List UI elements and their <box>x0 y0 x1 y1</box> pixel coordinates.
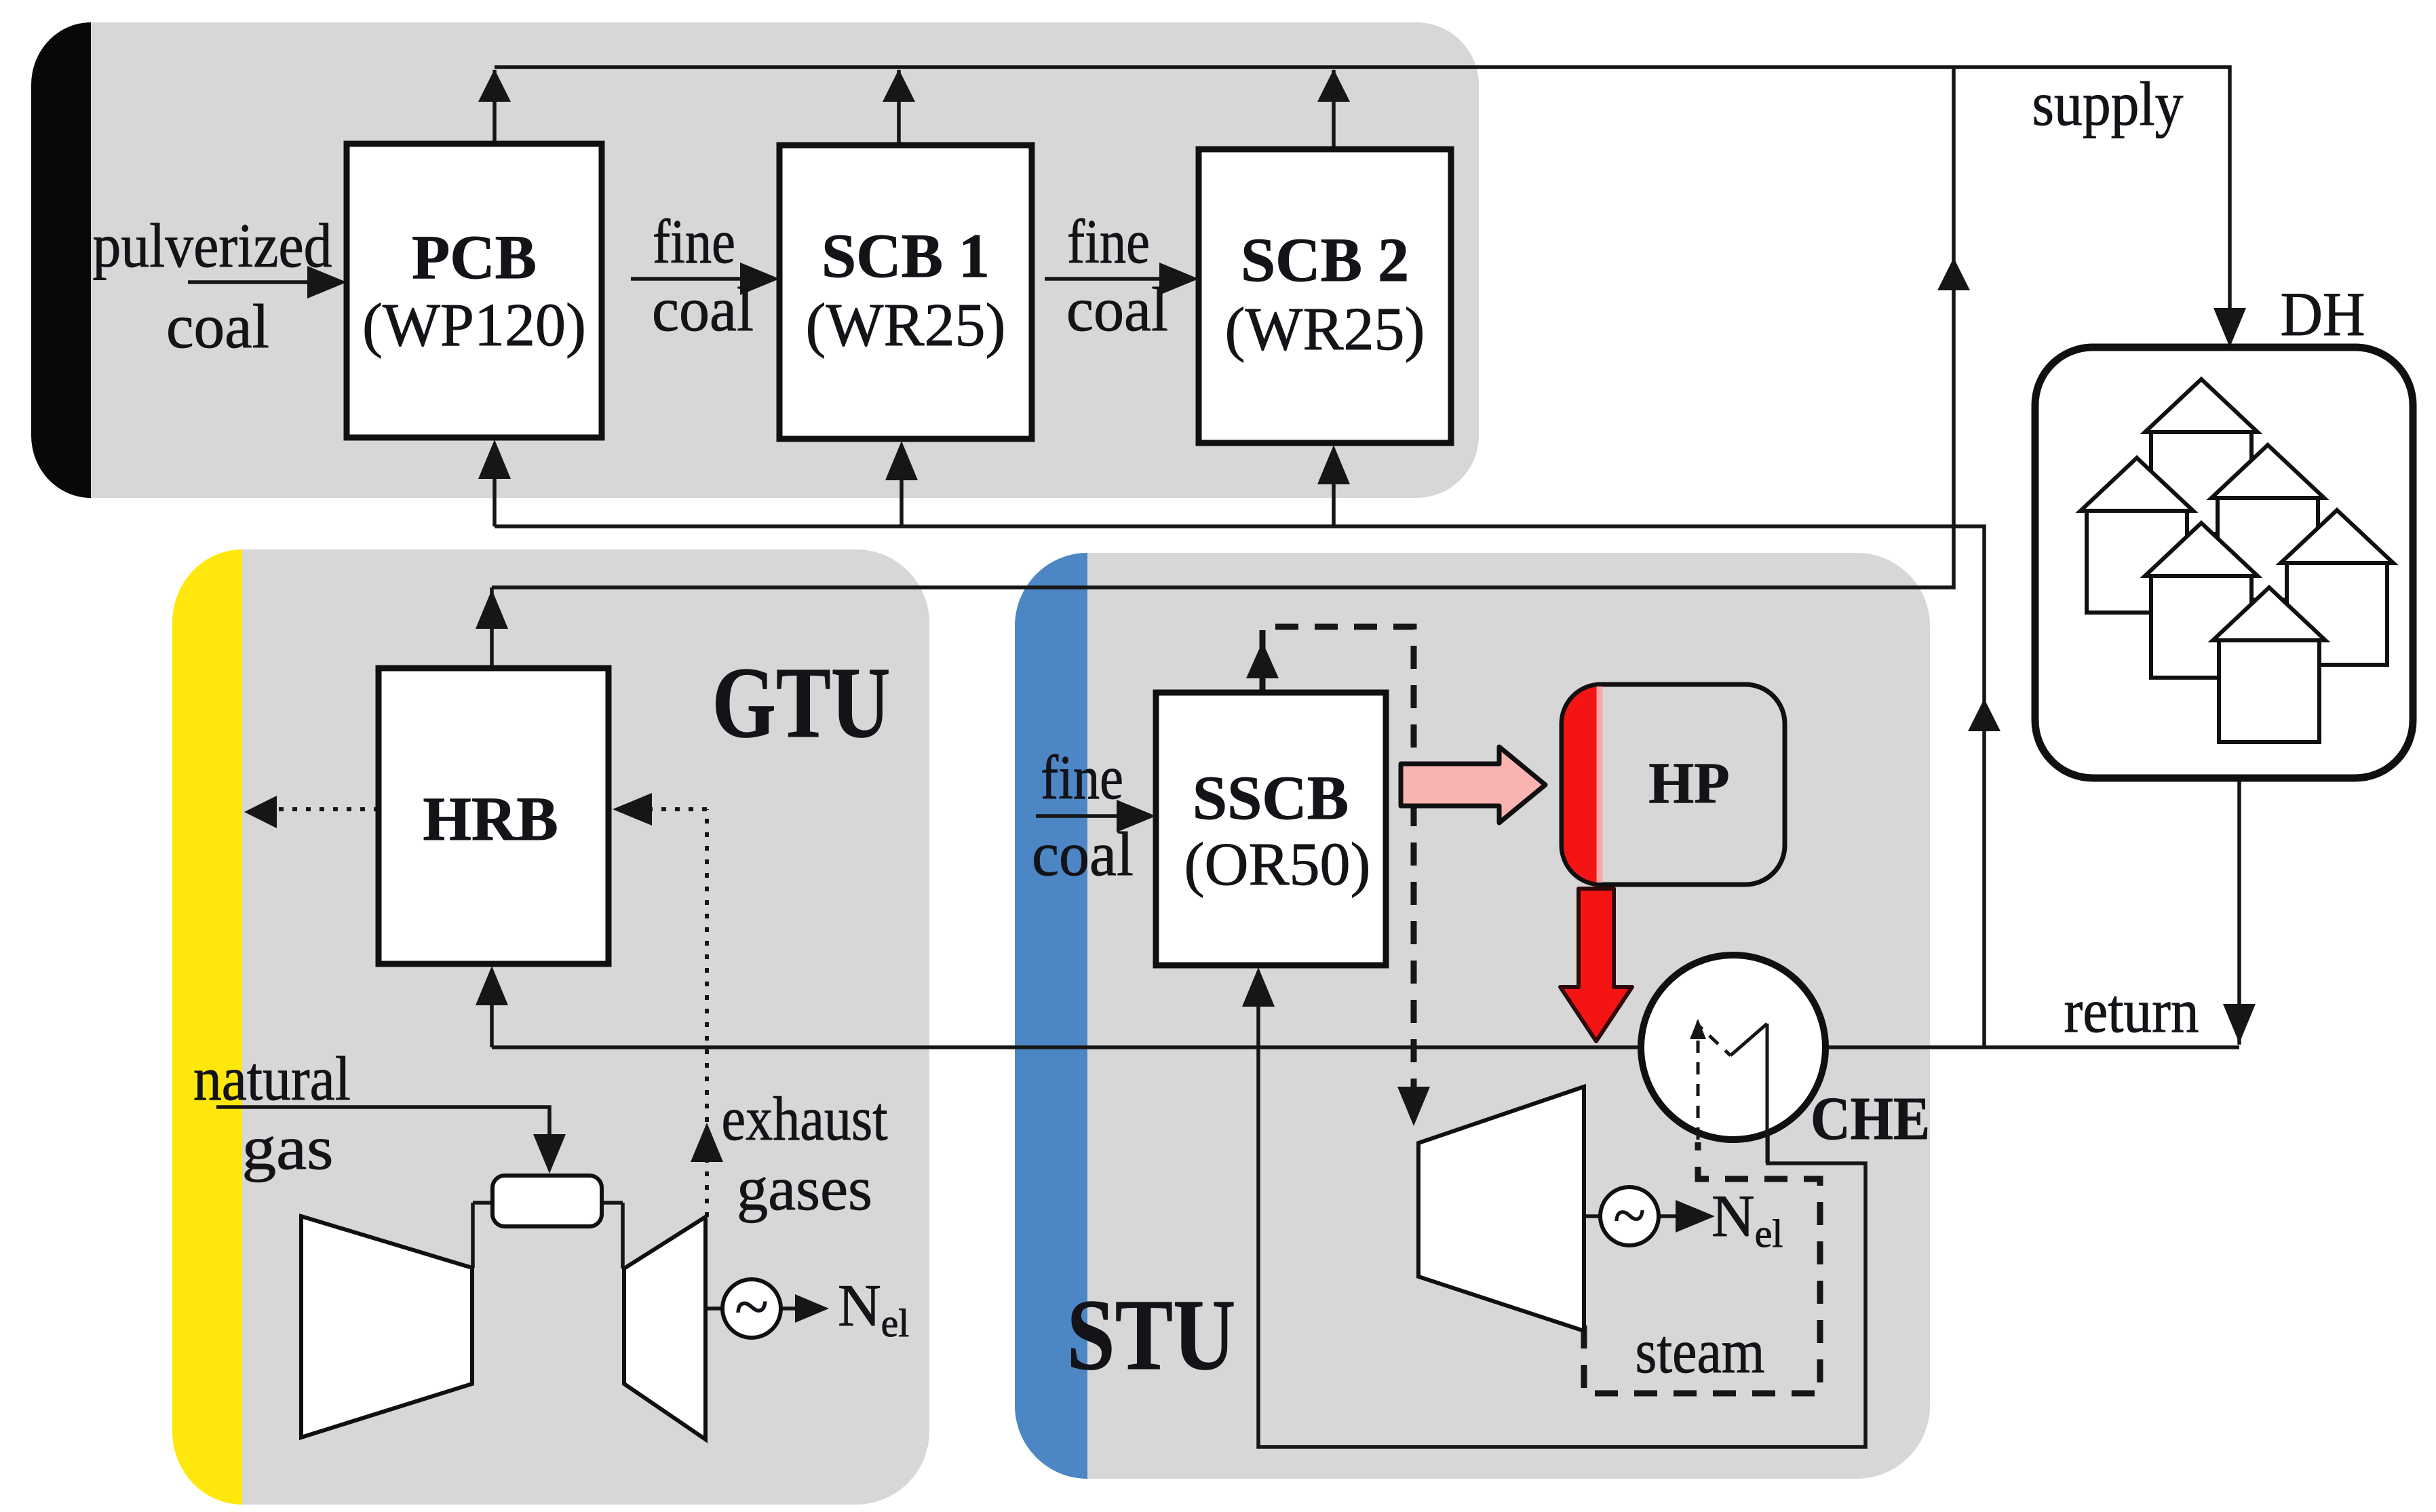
svg-text:steam: steam <box>1636 1317 1765 1386</box>
svg-text:PCB: PCB <box>412 222 537 292</box>
svg-text:~: ~ <box>735 1272 769 1341</box>
svg-text:STU: STU <box>1067 1279 1236 1391</box>
svg-text:exhaust: exhaust <box>722 1084 888 1153</box>
svg-text:(WR25): (WR25) <box>806 292 1006 359</box>
svg-text:coal: coal <box>166 292 269 361</box>
svg-text:SSCB: SSCB <box>1193 763 1349 832</box>
svg-text:coal: coal <box>652 275 754 344</box>
svg-text:~: ~ <box>1613 1183 1646 1249</box>
svg-text:return: return <box>2064 976 2199 1045</box>
svg-text:gas: gas <box>242 1113 334 1182</box>
svg-text:CHE: CHE <box>1811 1085 1930 1152</box>
svg-text:fine: fine <box>1041 743 1123 812</box>
svg-text:supply: supply <box>2032 69 2184 138</box>
svg-text:natural: natural <box>193 1044 351 1113</box>
svg-text:(WP120): (WP120) <box>362 292 586 359</box>
svg-text:SCB 2: SCB 2 <box>1241 225 1409 294</box>
svg-text:SCB 1: SCB 1 <box>821 221 990 290</box>
svg-text:pulverized: pulverized <box>93 211 332 280</box>
svg-text:(WR25): (WR25) <box>1225 296 1425 363</box>
svg-text:fine: fine <box>1067 207 1150 276</box>
svg-text:HP: HP <box>1648 750 1729 815</box>
svg-text:coal: coal <box>1032 819 1134 889</box>
svg-text:(OR50): (OR50) <box>1184 831 1371 898</box>
svg-text:DH: DH <box>2281 279 2365 349</box>
svg-text:fine: fine <box>653 207 735 276</box>
svg-text:HRB: HRB <box>423 784 558 853</box>
svg-text:coal: coal <box>1066 275 1168 344</box>
svg-text:gases: gases <box>737 1154 872 1223</box>
svg-text:GTU: GTU <box>712 646 891 759</box>
